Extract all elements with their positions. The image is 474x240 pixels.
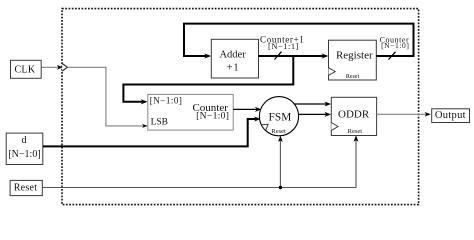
box Adder bbox=[211, 39, 258, 78]
wire ODDR to Output bbox=[377, 113, 428, 115]
slash bus marker (Counter+1) bbox=[275, 52, 282, 60]
box d [N-1:0] bbox=[6, 133, 43, 164]
junction Reset branch bbox=[279, 186, 282, 189]
svg-text:Output: Output bbox=[435, 110, 466, 121]
box Output bbox=[432, 109, 470, 123]
node FSM (circle) bbox=[259, 97, 298, 136]
svg-text:Reset: Reset bbox=[348, 128, 363, 135]
svg-text:+1: +1 bbox=[227, 63, 240, 74]
arrowhead into Output bbox=[425, 112, 431, 117]
clock pin FSM bbox=[262, 124, 268, 130]
arrowhead into Register bbox=[322, 53, 329, 58]
wire Register output feedback loop to Adder bbox=[184, 24, 414, 56]
wire Reset net bbox=[42, 139, 356, 188]
svg-text:[N−1:0]: [N−1:0] bbox=[8, 149, 40, 160]
arrowhead into LSB pin bbox=[142, 124, 147, 128]
box ODDR bbox=[331, 97, 376, 135]
svg-text:d: d bbox=[22, 135, 27, 146]
arrowhead Reset into ODDR bbox=[354, 135, 359, 141]
arrowhead Reset into FSM bbox=[278, 136, 283, 142]
box Counter (gray) bbox=[148, 94, 233, 130]
wire Counter to FSM bbox=[233, 108, 258, 110]
svg-text:Reset: Reset bbox=[14, 183, 37, 194]
wire branch bus down to Counter [N-1:0] pin bbox=[123, 56, 293, 102]
wire d bus (thick) bbox=[43, 119, 257, 146]
arrowhead upper into ODDR bbox=[325, 102, 332, 107]
arrowhead CLK at boundary bbox=[57, 65, 63, 70]
box Register bbox=[329, 40, 377, 80]
wire CLK inside: right, down, into LSB bbox=[67, 67, 144, 126]
svg-text:[N−1:0]: [N−1:0] bbox=[196, 111, 229, 122]
svg-text:Reset: Reset bbox=[271, 128, 286, 135]
wire Reset branch to FSM bbox=[279, 139, 281, 187]
svg-text:[N−1:1]: [N−1:1] bbox=[268, 41, 299, 51]
clock pin Register bbox=[329, 68, 336, 76]
wire CLK to boundary bbox=[42, 66, 61, 68]
wire Adder output bus to Register bbox=[259, 55, 327, 57]
wire FSM to ODDR upper bbox=[294, 103, 328, 105]
box Reset bbox=[10, 180, 42, 195]
svg-text:Register: Register bbox=[336, 49, 373, 61]
svg-text:Reset: Reset bbox=[346, 74, 360, 80]
arrowhead into Adder bbox=[204, 53, 211, 58]
svg-text:[N−1:0]: [N−1:0] bbox=[150, 95, 183, 105]
arrowhead Counter to FSM bbox=[255, 107, 262, 112]
svg-text:FSM: FSM bbox=[269, 112, 292, 124]
slash bus marker (Counter) bbox=[389, 52, 396, 60]
dashed module boundary bbox=[62, 9, 419, 205]
svg-text:Adder: Adder bbox=[219, 50, 246, 61]
svg-text:ODDR: ODDR bbox=[338, 108, 370, 120]
wire FSM to ODDR lower bbox=[299, 113, 329, 115]
arrowhead into Counter [N-1:0] bbox=[141, 99, 148, 104]
svg-text:LSB: LSB bbox=[151, 118, 168, 128]
chevron continuation mark bbox=[62, 64, 67, 72]
arrowhead lower into ODDR bbox=[325, 112, 332, 117]
box CLK bbox=[11, 60, 42, 78]
clock pin ODDR bbox=[331, 123, 338, 131]
svg-text:[N−1:0]: [N−1:0] bbox=[381, 41, 409, 50]
svg-text:CLK: CLK bbox=[14, 65, 35, 76]
arrowhead d into FSM bbox=[254, 117, 261, 122]
